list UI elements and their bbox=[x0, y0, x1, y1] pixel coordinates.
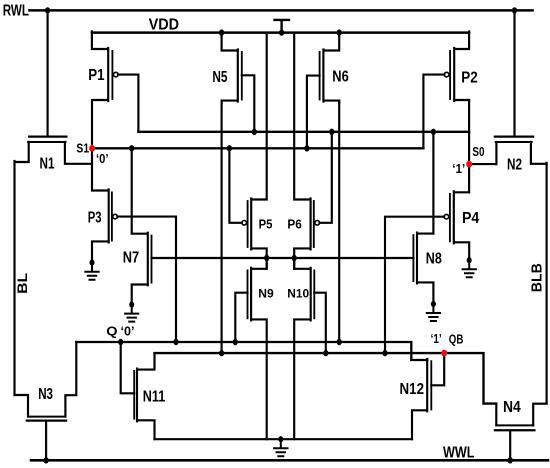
transistor N9 bbox=[235, 258, 266, 439]
svg-text:QB: QB bbox=[449, 332, 464, 346]
wire WWL rail bbox=[31, 459, 548, 462]
wire VDD rail bbox=[92, 31, 469, 34]
wire N11/N12 source line bbox=[155, 438, 413, 440]
svg-text:P2: P2 bbox=[461, 70, 477, 87]
node QB - N10 gate junction bbox=[323, 350, 328, 356]
node N8 ground junction bbox=[431, 301, 436, 307]
wire N5 source to QB line bbox=[221, 101, 223, 354]
node RWL-N2 junction bbox=[512, 7, 517, 13]
transistor N4 bbox=[495, 404, 547, 461]
svg-text:BLB: BLB bbox=[530, 263, 546, 292]
node gate line - P5/N9 junction bbox=[264, 255, 269, 261]
ground at P4 source bbox=[463, 259, 476, 277]
transistor N6 bbox=[307, 31, 339, 148]
node S0 line - P6 gate junction bbox=[329, 129, 334, 135]
svg-text:BL: BL bbox=[15, 273, 30, 294]
transistor N2 bbox=[495, 137, 547, 165]
svg-text:N5: N5 bbox=[212, 69, 227, 86]
transistor N3 bbox=[15, 342, 77, 460]
wire S0 cross-coupled line (upper) bbox=[138, 131, 469, 133]
svg-text:‘0’: ‘0’ bbox=[96, 152, 109, 166]
transistor N11 bbox=[121, 342, 155, 439]
node QB (red) bbox=[441, 350, 447, 357]
node QB - N5 source junction bbox=[219, 350, 224, 356]
node Q - N11 gate junction bbox=[118, 339, 123, 345]
wire RWL rail bbox=[30, 9, 533, 12]
svg-text:S1: S1 bbox=[76, 141, 89, 155]
ground at P3 source bbox=[85, 262, 98, 280]
svg-text:P5: P5 bbox=[259, 217, 273, 232]
transistor P2 bbox=[423, 31, 469, 148]
node WWL - N4 gate junction bbox=[508, 457, 513, 463]
svg-text:VDD: VDD bbox=[149, 16, 180, 33]
node S1 line - N7 drain junction bbox=[129, 145, 134, 151]
transistor P6 bbox=[294, 33, 332, 269]
node RWL-N1 junction bbox=[45, 7, 50, 13]
svg-text:RWL: RWL bbox=[3, 3, 29, 20]
ground at N7 source bbox=[125, 304, 138, 322]
transistor N5 bbox=[222, 31, 255, 131]
svg-text:N1: N1 bbox=[40, 156, 55, 173]
svg-text:‘0’: ‘0’ bbox=[121, 324, 135, 338]
node center ground junction bbox=[278, 436, 283, 442]
node VDD tap junction bbox=[279, 29, 284, 35]
node S1 (red) bbox=[89, 145, 95, 152]
node VDD-N6 junction bbox=[337, 29, 342, 35]
transistor N8 bbox=[413, 233, 433, 303]
wire node S0 vertical (P2 drain to P4 source) bbox=[468, 100, 470, 192]
node VDD-N5 junction bbox=[219, 29, 224, 35]
node P4 ground junction bbox=[467, 257, 472, 263]
svg-text:N12: N12 bbox=[400, 381, 425, 398]
wire node Q line bbox=[76, 342, 427, 360]
transistor P5 bbox=[229, 33, 266, 269]
node P3 ground junction bbox=[90, 260, 95, 266]
wire N6 source to Q line bbox=[338, 101, 340, 342]
svg-text:N7: N7 bbox=[123, 249, 139, 266]
ground at N8 source bbox=[427, 303, 440, 321]
node S0 line - N5 gate junction bbox=[252, 129, 257, 135]
node N7 ground junction bbox=[129, 302, 134, 308]
wire N8 drain drop from S0 line bbox=[432, 132, 434, 234]
node Q - N9 gate junction bbox=[233, 339, 238, 345]
node WWL - N3 gate junction bbox=[44, 457, 49, 463]
VDD tap symbol bbox=[275, 20, 290, 33]
svg-text:P6: P6 bbox=[287, 217, 301, 232]
node gate line - P6/N10 junction bbox=[292, 255, 297, 261]
svg-text:N4: N4 bbox=[503, 399, 521, 416]
transistor P4 bbox=[385, 191, 469, 353]
svg-text:‘1’: ‘1’ bbox=[431, 332, 442, 346]
node S0 line - N8 drain junction bbox=[431, 129, 436, 135]
node S1 line - P5 gate junction bbox=[227, 145, 232, 151]
node S1 line - N6 gate junction bbox=[304, 145, 309, 151]
svg-text:S0: S0 bbox=[472, 145, 484, 159]
transistor N12 bbox=[412, 353, 444, 439]
label BLB (rotated) bbox=[530, 263, 546, 292]
svg-text:P1: P1 bbox=[88, 67, 105, 84]
wire RWL drop to N2 gate bbox=[513, 10, 515, 135]
svg-text:N9: N9 bbox=[258, 287, 274, 301]
svg-text:N3: N3 bbox=[38, 386, 53, 403]
svg-text:N10: N10 bbox=[287, 287, 309, 301]
wire S0 branch to N2 bbox=[469, 163, 496, 165]
svg-text:‘1’: ‘1’ bbox=[452, 162, 465, 176]
node Q - N6 source junction bbox=[337, 339, 342, 345]
transistor N1 bbox=[15, 137, 93, 164]
node S0 (red) bbox=[466, 161, 472, 168]
wire N7/N8 gate line bbox=[152, 257, 414, 259]
svg-text:N2: N2 bbox=[507, 156, 522, 173]
transistor N10 bbox=[294, 258, 326, 439]
svg-text:N6: N6 bbox=[332, 69, 349, 86]
node Q - P3 gate junction bbox=[173, 339, 178, 345]
transistor P1 bbox=[92, 31, 138, 148]
wire BLB bitline bbox=[546, 163, 548, 404]
label BL (rotated) bbox=[15, 273, 30, 294]
wire RWL drop to N1 gate bbox=[47, 10, 49, 135]
svg-text:WWL: WWL bbox=[443, 445, 475, 462]
node QB - P4 gate junction bbox=[382, 350, 387, 356]
transistor P3 bbox=[92, 147, 176, 342]
svg-text:Q: Q bbox=[106, 325, 118, 339]
wire S1 cross-coupled line (lower) bbox=[92, 147, 423, 149]
svg-text:P3: P3 bbox=[88, 209, 102, 226]
transistor N7 bbox=[132, 147, 152, 303]
wire node QB line bbox=[155, 353, 497, 404]
ground at center bottom bbox=[274, 439, 287, 456]
svg-text:P4: P4 bbox=[462, 210, 480, 227]
svg-text:N8: N8 bbox=[426, 250, 442, 267]
svg-text:N11: N11 bbox=[143, 389, 166, 406]
wire BL bitline bbox=[13, 161, 15, 395]
